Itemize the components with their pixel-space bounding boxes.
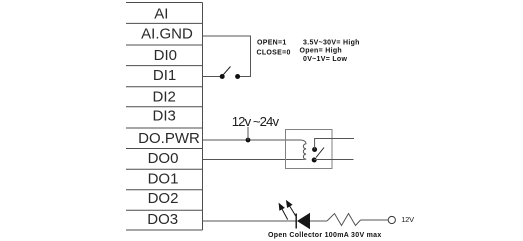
pin label DO1 xyxy=(148,170,179,187)
LED D1 emission arrow 2 xyxy=(287,201,296,216)
label Open= High xyxy=(300,48,342,55)
svg-text:AI.GND: AI.GND xyxy=(141,26,193,43)
label CLOSE=0 xyxy=(257,50,291,57)
svg-text:DO2: DO2 xyxy=(148,190,179,207)
relay K1 contact NO dot xyxy=(312,158,317,163)
junction on DO.PWR wire xyxy=(246,138,251,143)
pin label DI2 xyxy=(153,88,176,105)
switch S1 blade xyxy=(223,67,231,76)
label 12V xyxy=(401,215,414,224)
svg-text:OPEN=1: OPEN=1 xyxy=(257,40,287,47)
switch S1 contact left xyxy=(220,74,225,79)
wire AI.GND to switch xyxy=(203,36,251,77)
pin label AI.GND xyxy=(141,26,193,43)
pin label DO2 xyxy=(148,190,179,207)
svg-text:12V: 12V xyxy=(401,215,414,224)
wire DI1 to switch xyxy=(203,76,223,78)
relay K1 contact blade xyxy=(316,148,324,158)
wire DO3 to LED xyxy=(203,220,297,222)
pin label DO.PWR xyxy=(138,130,200,147)
pin label DI3 xyxy=(153,108,176,125)
svg-text:DO1: DO1 xyxy=(148,170,179,187)
LED D1 cathode bar xyxy=(295,214,297,229)
svg-text:DI2: DI2 xyxy=(153,88,176,105)
pin label AI xyxy=(154,5,168,22)
svg-text:AI: AI xyxy=(154,5,168,22)
relay K1 coil xyxy=(301,140,307,160)
pin label DI0 xyxy=(154,47,177,64)
switch S1 contact right xyxy=(235,74,240,79)
wire resistor to terminal xyxy=(361,219,389,221)
svg-text:Open= High: Open= High xyxy=(300,48,342,55)
svg-text:0V~1V= Low: 0V~1V= Low xyxy=(303,56,347,63)
wire relay NO out xyxy=(314,159,353,161)
wire LED to resistor xyxy=(310,220,327,222)
wire relay common out xyxy=(315,139,354,150)
wire DO0 to relay coil xyxy=(203,159,302,161)
svg-text:3.5V~30V= High: 3.5V~30V= High xyxy=(303,40,360,47)
pin label DO3 xyxy=(147,211,178,228)
svg-text:DO.PWR: DO.PWR xyxy=(138,130,200,147)
svg-text:DI0: DI0 xyxy=(154,47,177,64)
LED D1 triangle xyxy=(297,213,310,230)
label 0V~1V= Low xyxy=(303,56,347,63)
terminal circle 12V xyxy=(388,216,395,223)
label 12v ~24v xyxy=(232,114,280,129)
pin label DO0 xyxy=(148,150,179,167)
svg-text:12v ~24v: 12v ~24v xyxy=(232,114,280,129)
pin label DI1 xyxy=(153,67,176,84)
relay K1 box xyxy=(286,130,333,169)
svg-text:Open Collector 100mA 30V max: Open Collector 100mA 30V max xyxy=(268,232,382,239)
LED D1 emission arrow 1 xyxy=(279,204,288,220)
svg-text:DO3: DO3 xyxy=(147,211,178,228)
terminal block grid xyxy=(126,3,203,231)
svg-text:CLOSE=0: CLOSE=0 xyxy=(257,50,291,57)
svg-text:DI3: DI3 xyxy=(153,108,176,125)
relay K1 contact common dot xyxy=(312,147,317,152)
label OPEN=1 xyxy=(257,40,287,47)
svg-text:DI1: DI1 xyxy=(153,67,176,84)
wire DO.PWR to relay coil xyxy=(203,139,301,141)
label Open Collector 100mA 30V max xyxy=(268,232,382,239)
pointer tick from 12v label xyxy=(247,127,249,140)
svg-text:DO0: DO0 xyxy=(148,150,179,167)
resistor R1 xyxy=(327,214,361,226)
label 3.5V~30V= High xyxy=(303,40,360,47)
